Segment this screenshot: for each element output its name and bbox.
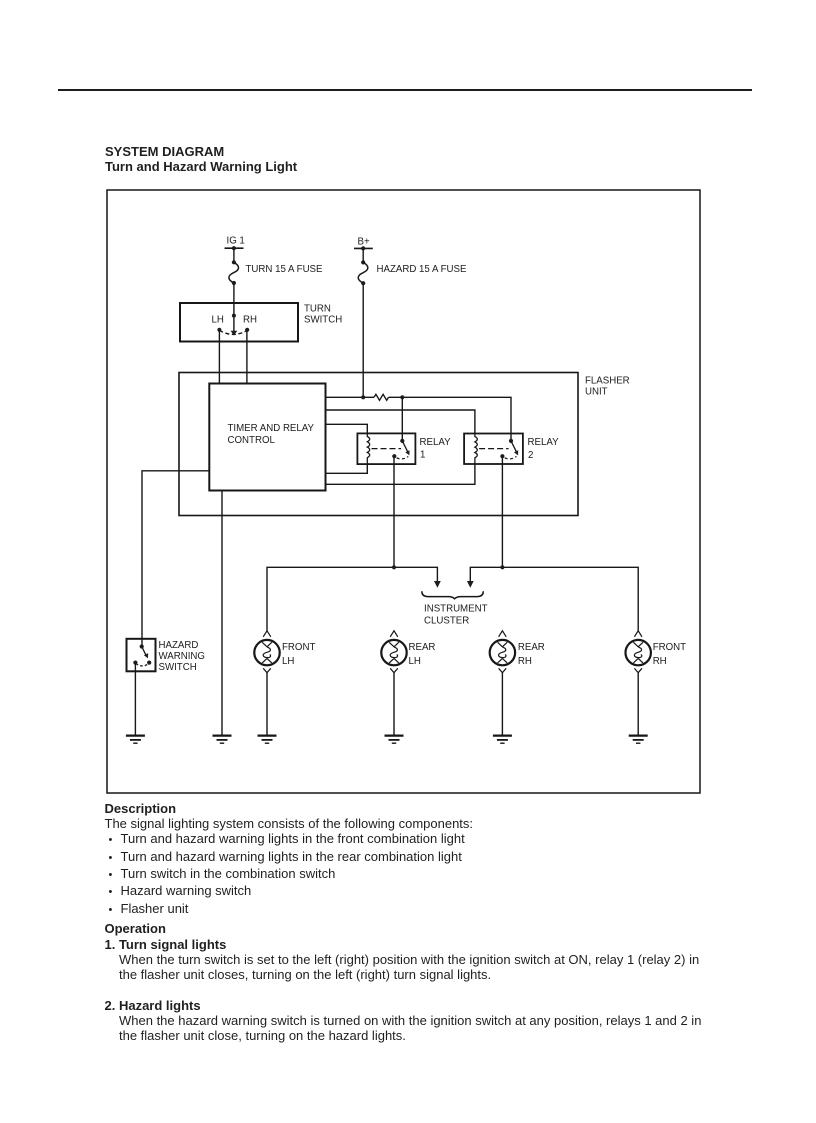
svg-text:TURN 15 A FUSE: TURN 15 A FUSE — [246, 264, 324, 275]
ground hazard switch — [126, 736, 145, 744]
svg-text:UNIT: UNIT — [585, 387, 608, 398]
ground lamp FRONT RH — [629, 736, 648, 744]
fuse TURN 15 A FUSE — [229, 260, 323, 285]
svg-text:HAZARD 15 A FUSE: HAZARD 15 A FUSE — [377, 264, 467, 275]
relay 1 label — [420, 437, 452, 460]
wire bus left segment — [267, 567, 437, 631]
instrument cluster arrow right — [467, 581, 474, 588]
svg-text:LH: LH — [282, 656, 294, 667]
wire resistor to relay 2 contact — [389, 397, 512, 441]
turn switch common arm — [231, 303, 238, 335]
resistor R1 — [374, 394, 389, 400]
svg-text:RELAY: RELAY — [528, 437, 560, 448]
wire B+ to fuse — [362, 248, 364, 262]
svg-text:RH: RH — [518, 656, 532, 667]
instrument cluster arrow left — [434, 581, 441, 588]
ground timer — [213, 736, 232, 744]
svg-text:FLASHER: FLASHER — [585, 376, 630, 387]
relay 1 coil — [367, 433, 369, 464]
wire lamp REAR RH to ground — [501, 673, 503, 735]
svg-text:SWITCH: SWITCH — [304, 315, 342, 326]
wire IG1 to fuse — [233, 248, 235, 262]
svg-text:2: 2 — [528, 450, 533, 461]
wire bus right segment — [470, 567, 638, 631]
Operation block — [105, 921, 700, 982]
svg-text:HAZARD: HAZARD — [159, 640, 199, 651]
wire lamp FRONT RH to ground — [637, 673, 639, 735]
ground lamp FRONT LH — [258, 736, 277, 744]
svg-text:RH: RH — [653, 656, 667, 667]
turn switch RH contact — [243, 314, 257, 332]
relay 1 box — [357, 433, 415, 464]
wire timer to ground — [221, 491, 223, 735]
lamp REAR LH — [381, 631, 435, 673]
wire LH to timer — [218, 330, 220, 384]
top horizontal rule — [58, 89, 752, 91]
hazard warning switch — [127, 639, 205, 673]
svg-text:RH: RH — [243, 314, 257, 325]
wire hazard fuse to resistor junction — [362, 283, 364, 397]
relay 2 box — [464, 434, 523, 465]
wire lamp FRONT LH to ground — [266, 673, 268, 735]
relay 2 coil — [475, 434, 477, 465]
wire timer to hazard switch — [142, 471, 209, 647]
svg-text:TIMER AND RELAY: TIMER AND RELAY — [228, 423, 315, 434]
svg-text:SWITCH: SWITCH — [159, 662, 197, 673]
lamp FRONT RH — [626, 631, 687, 673]
svg-text:CLUSTER: CLUSTER — [424, 616, 469, 627]
wire relay 1 output to bus — [393, 456, 395, 567]
node IG 1 — [225, 236, 245, 251]
node B+ — [354, 236, 373, 250]
instrument cluster brace and label — [422, 591, 488, 626]
node bus junction REAR RH — [500, 565, 504, 569]
svg-text:LH: LH — [212, 314, 224, 325]
wire junction A to relay 1 contact — [401, 397, 403, 441]
lamp FRONT LH — [254, 631, 315, 673]
Hazard lights block — [105, 998, 702, 1044]
svg-text:CONTROL: CONTROL — [228, 435, 276, 446]
fuse HAZARD 15 A FUSE — [358, 260, 467, 285]
wire timer to relay 2 coil — [326, 410, 475, 434]
svg-text:TURN: TURN — [304, 304, 331, 315]
svg-text:1: 1 — [420, 450, 425, 461]
Description block — [105, 801, 474, 918]
wire timer to resistor — [326, 396, 375, 398]
svg-text:FRONT: FRONT — [282, 642, 315, 653]
page heading — [104, 802, 106, 804]
relay 2 label — [528, 437, 560, 461]
relay 2 dashed actuation link — [479, 448, 509, 450]
node junction A — [400, 395, 404, 399]
DIAGRAM SVG — [0, 0, 816, 800]
svg-text:B+: B+ — [358, 236, 370, 247]
svg-text:IG 1: IG 1 — [227, 236, 245, 247]
ground lamp REAR LH — [385, 736, 404, 744]
svg-text:LH: LH — [409, 656, 421, 667]
flasher unit box — [179, 373, 630, 516]
svg-text:REAR: REAR — [409, 642, 436, 653]
wire relay 1 coil return — [326, 464, 368, 473]
timer and relay control box U1 — [209, 384, 325, 491]
node bus junction REAR LH — [392, 565, 396, 569]
svg-text:INSTRUMENT: INSTRUMENT — [424, 604, 488, 615]
turn switch LH contact — [212, 314, 224, 332]
wire relay 2 coil return — [326, 464, 475, 484]
turn switch box — [180, 303, 342, 342]
node junction B+ line — [361, 395, 365, 399]
wire fuse to turn switch — [233, 283, 235, 303]
svg-text:WARNING: WARNING — [159, 651, 205, 662]
ground lamp REAR RH — [493, 736, 512, 744]
wire timer to relay 1 coil — [326, 424, 368, 433]
relay 1 dashed actuation link — [372, 448, 402, 450]
svg-text:REAR: REAR — [518, 642, 545, 653]
turn switch dashed throw — [219, 330, 247, 334]
svg-text:RELAY: RELAY — [420, 437, 452, 448]
wire RH to timer — [246, 330, 248, 384]
relay 2 contacts — [500, 439, 518, 459]
relay 1 contacts — [392, 439, 409, 459]
lamp REAR RH — [490, 631, 545, 673]
wire lamp REAR LH to ground — [393, 673, 395, 735]
wire relay 2 output to bus — [501, 456, 503, 567]
wire hazard switch to ground — [134, 663, 136, 735]
svg-text:FRONT: FRONT — [653, 642, 686, 653]
